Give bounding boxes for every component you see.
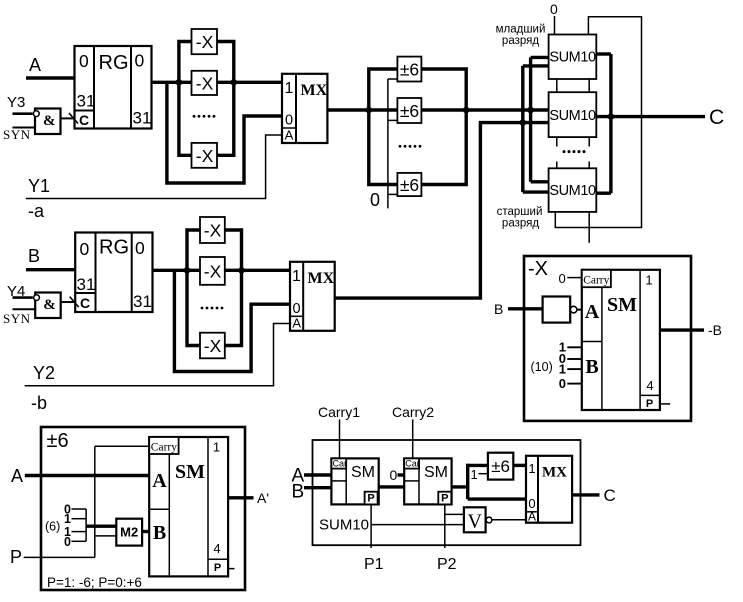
node P input of ±6 detail xyxy=(10,547,22,567)
junction on ±6 left bus xyxy=(366,107,373,114)
ellipsis dots -X column A xyxy=(193,115,216,118)
wire carry stubs between SUM10 digit1 and digit2 xyxy=(557,79,589,92)
register RG2 xyxy=(75,233,152,313)
adder SM (inside ±6 detail) xyxy=(149,437,228,576)
multiplexer MX2 xyxy=(290,262,335,331)
node B input of -X detail xyxy=(494,301,503,317)
svg-text:SM: SM xyxy=(424,464,448,481)
svg-text:0: 0 xyxy=(80,239,90,259)
node SYN label xyxy=(3,127,31,142)
node A' label xyxy=(257,490,269,506)
svg-text:A: A xyxy=(11,466,23,486)
block -X A3 xyxy=(192,143,218,168)
svg-text:1: 1 xyxy=(645,273,652,288)
svg-text:SUM10: SUM10 xyxy=(549,183,596,199)
svg-text:0: 0 xyxy=(559,271,566,286)
block -X B3 xyxy=(200,333,225,359)
label SUM10 title xyxy=(319,517,369,534)
node SYN label channel B xyxy=(3,311,31,326)
wire MX1 output to ±6 column xyxy=(327,108,466,111)
-X detail outer box xyxy=(524,256,691,421)
label старший разряд xyxy=(497,206,543,230)
svg-text:-X: -X xyxy=(528,258,548,280)
wire A' output xyxy=(228,496,253,499)
svg-text:±6: ±6 xyxy=(47,430,69,452)
wire main line ±6 column to SUM10 A inputs xyxy=(466,108,548,111)
wire P control line of ±6 column with constant 0 xyxy=(388,79,398,208)
svg-text:±6: ±6 xyxy=(400,175,419,195)
svg-text:0: 0 xyxy=(370,190,380,210)
wire bypass RG1 to MX1 input 0 xyxy=(167,82,282,183)
wire Y1 control to MX1 select A xyxy=(26,135,282,199)
svg-text:±6: ±6 xyxy=(400,101,419,121)
node Carry1 label xyxy=(318,404,360,420)
svg-text:SUM10: SUM10 xyxy=(549,50,596,66)
multiplexer MX (SUM10 detail) xyxy=(526,456,572,524)
block -X A1 xyxy=(192,29,218,54)
node -a label xyxy=(28,201,45,221)
SUM10 detail outer box xyxy=(313,440,581,545)
node -B label xyxy=(708,322,722,338)
svg-text:-a: -a xyxy=(28,201,45,221)
svg-text:A: A xyxy=(585,301,600,323)
svg-text:31: 31 xyxy=(77,275,96,294)
svg-text:Y2: Y2 xyxy=(33,363,55,383)
svg-text:Car: Car xyxy=(333,458,348,468)
svg-text:C: C xyxy=(709,106,724,129)
svg-text:RG: RG xyxy=(99,52,129,74)
wire P2 branch to V input xyxy=(446,513,464,515)
wire M2 output to SM B input xyxy=(142,530,149,533)
svg-text:P: P xyxy=(367,493,374,505)
wire RG1 output to MX1 input 1 (main line) xyxy=(152,81,283,84)
wire P output stub of -X detail xyxy=(660,403,670,405)
svg-text:MX: MX xyxy=(301,82,328,99)
svg-text:SYN: SYN xyxy=(3,127,31,142)
svg-text:-X: -X xyxy=(204,220,222,240)
node B input label xyxy=(28,246,40,266)
wire 0110 bracket to M2 input xyxy=(86,525,116,528)
wire B input to first SM xyxy=(304,486,331,489)
block SUM10 digit 1 xyxy=(549,35,597,80)
node Carry2 label xyxy=(392,404,434,420)
svg-text:0: 0 xyxy=(550,1,558,17)
wire A input to SM xyxy=(25,474,149,477)
block SUM10 digit 3 xyxy=(549,168,597,212)
block ±6 A3 xyxy=(397,173,421,196)
wire Y3 input xyxy=(13,112,33,115)
label младший разряд xyxy=(496,24,546,48)
node -b label xyxy=(31,393,47,413)
node Y1 label xyxy=(28,176,50,196)
junction on ±6 right bus xyxy=(463,107,470,114)
ellipsis dots ±6 column xyxy=(399,145,422,148)
node 0 carry-in constant xyxy=(559,271,582,286)
wire AND2 output to RG2 clock C with dynamic-input slash xyxy=(61,297,79,308)
wire SUM10 A bus vertical xyxy=(531,57,549,181)
svg-text:младший: младший xyxy=(496,24,546,36)
junction output bus with C line xyxy=(608,113,615,120)
svg-text:0: 0 xyxy=(135,238,145,258)
wire -B output xyxy=(660,328,704,331)
node constant 0110 inputs to M2 xyxy=(64,503,86,550)
adder SM second (correction) xyxy=(404,458,451,504)
wire right bus of -X column B xyxy=(225,230,242,346)
wire P1 branch to V input xyxy=(371,524,464,526)
svg-text:-X: -X xyxy=(204,261,222,281)
register RG1 xyxy=(75,46,152,129)
wire RG2 output to MX2 input 1 (main line B) xyxy=(153,269,291,272)
svg-text:P: P xyxy=(441,493,448,505)
±6 detail outer box xyxy=(41,427,245,590)
svg-text:±6: ±6 xyxy=(491,457,510,476)
gate U1 AND (&) for channel A xyxy=(33,109,60,135)
svg-text:1: 1 xyxy=(559,362,566,377)
svg-text:0: 0 xyxy=(64,535,71,549)
svg-text:±6: ±6 xyxy=(400,60,419,80)
svg-text:Carry: Carry xyxy=(151,442,177,454)
svg-text:-B: -B xyxy=(708,322,722,338)
svg-text:-X: -X xyxy=(196,146,214,166)
svg-text:разряд: разряд xyxy=(502,35,539,47)
svg-text:M2: M2 xyxy=(120,525,138,540)
wire Carry1 into first SM xyxy=(339,420,341,459)
node 0 constant for ±6 P line xyxy=(370,190,380,210)
svg-text:-X: -X xyxy=(196,73,214,93)
block -X A2 xyxy=(192,71,218,95)
svg-text:1: 1 xyxy=(213,440,220,455)
wire carry stubs between SUM10 digit2 and digit3 xyxy=(557,137,589,168)
node A input of ±6 detail xyxy=(11,466,23,486)
junction on right -X bus B xyxy=(238,267,245,274)
svg-text:1: 1 xyxy=(64,512,71,526)
svg-text:Carry: Carry xyxy=(583,275,609,287)
ellipsis dots SUM10 column xyxy=(563,150,586,153)
node P1 label xyxy=(364,556,384,573)
label ±6 title xyxy=(47,430,69,452)
node constant 1010 inputs to SM B xyxy=(559,340,582,392)
svg-text:A': A' xyxy=(257,490,269,506)
svg-text:V: V xyxy=(468,511,483,533)
svg-text:1: 1 xyxy=(528,461,535,476)
wire right bus of ±6 column xyxy=(421,69,466,185)
junction main line with SUM10 A bus xyxy=(527,107,534,114)
wire P2 down from second SM P xyxy=(444,504,446,548)
adder SM first (units) xyxy=(331,458,378,504)
ellipsis dots -X column B xyxy=(201,307,224,310)
wire channel B riser to SUM10 B inputs xyxy=(335,123,549,299)
svg-text:0: 0 xyxy=(135,51,145,71)
svg-text:Y3: Y3 xyxy=(7,94,25,111)
wire right bus of -X column A xyxy=(217,42,234,156)
label (10) xyxy=(531,360,553,374)
block -X B1 xyxy=(200,217,225,243)
wire Carry2 into second SM xyxy=(412,420,414,459)
svg-text:SM: SM xyxy=(175,461,205,483)
svg-text:A: A xyxy=(285,128,294,143)
wire C output of SUM10 detail xyxy=(572,493,599,496)
gate V (OR) with inverted output xyxy=(464,507,526,532)
wire P1 down from first SM P xyxy=(370,504,372,548)
node 0 constant to second SM A input xyxy=(390,467,405,483)
gate U2 AND (&) for channel B xyxy=(34,293,61,319)
svg-text:31: 31 xyxy=(133,109,152,128)
svg-text:B: B xyxy=(292,482,305,503)
svg-text:A: A xyxy=(152,470,167,492)
label -X title xyxy=(528,258,548,280)
svg-text:(6): (6) xyxy=(45,520,60,534)
svg-text:P: P xyxy=(214,562,221,574)
node P2 label xyxy=(437,556,457,573)
wire A input to first SM xyxy=(304,473,331,476)
svg-text:31: 31 xyxy=(77,92,96,111)
svg-text:SM: SM xyxy=(607,294,637,316)
multiplexer MX1 xyxy=(282,74,328,143)
junction B line with SUM10 B bus xyxy=(520,119,527,126)
svg-text:SYN: SYN xyxy=(3,311,31,326)
junction on left -X bus xyxy=(176,79,183,86)
block -X B2 xyxy=(200,257,225,285)
svg-text:-X: -X xyxy=(204,336,222,356)
wire SYN input channel B xyxy=(13,308,36,310)
wire P output stub of ±6 detail xyxy=(228,568,234,570)
node C label xyxy=(709,106,724,129)
svg-text:MX: MX xyxy=(542,465,567,481)
svg-text:1: 1 xyxy=(285,80,294,97)
svg-text:B: B xyxy=(494,301,503,317)
adder SM (inside -X detail) xyxy=(582,270,660,410)
inverter (NOT) in -X detail xyxy=(543,297,582,323)
svg-text:SUM10: SUM10 xyxy=(549,108,596,124)
svg-text:0: 0 xyxy=(285,113,293,129)
svg-text:P2: P2 xyxy=(437,556,457,573)
wire left bus of -X column A xyxy=(179,42,192,156)
block M2 (mod-2 / complement unit) xyxy=(116,519,142,546)
svg-text:B: B xyxy=(153,522,166,544)
svg-text:&: & xyxy=(43,113,56,129)
svg-text:C: C xyxy=(604,486,616,505)
node Y4 label xyxy=(7,283,25,300)
svg-text:&: & xyxy=(43,297,56,313)
node Y3 label xyxy=(7,94,25,111)
svg-text:Carry2: Carry2 xyxy=(392,404,434,420)
svg-text:4: 4 xyxy=(213,541,220,556)
wire bypass RG2 to MX2 input 0 xyxy=(174,270,290,371)
wire Y2 control to MX2 select A xyxy=(25,324,290,386)
svg-text:MX: MX xyxy=(308,270,335,287)
wire A input xyxy=(26,76,76,79)
junction on right -X bus xyxy=(231,79,238,86)
block ±6 A1 xyxy=(397,57,421,82)
node 0 carry-in on top of SUM10 digit 1 xyxy=(550,1,558,35)
wire P input branching to Carry and M2 xyxy=(24,446,150,557)
wire carry wrap-around from digit3 bottom to digit1 top xyxy=(555,17,641,228)
svg-text:Car: Car xyxy=(405,458,420,468)
wire Y4 input xyxy=(13,296,33,299)
svg-text:P: P xyxy=(646,398,653,410)
wire left bus of -X column B xyxy=(187,230,200,346)
wire B input xyxy=(26,268,76,271)
svg-text:(10): (10) xyxy=(531,360,553,374)
svg-text:P1: P1 xyxy=(364,556,384,573)
svg-text:C: C xyxy=(79,112,89,128)
node C label of SUM10 detail xyxy=(604,486,616,505)
svg-text:1: 1 xyxy=(471,467,478,482)
svg-text:-X: -X xyxy=(196,32,214,52)
svg-text:0: 0 xyxy=(79,51,89,71)
svg-text:B: B xyxy=(28,246,40,266)
wire left bus of ±6 column xyxy=(369,69,398,185)
node A input label of SUM10 detail xyxy=(292,466,305,487)
svg-text:A: A xyxy=(29,55,41,75)
node B input label of SUM10 detail xyxy=(292,482,305,503)
svg-text:P=1: -6; P=0:+6: P=1: -6; P=0:+6 xyxy=(47,575,142,590)
svg-text:P: P xyxy=(10,547,22,567)
node A input label xyxy=(29,55,41,75)
svg-text:0: 0 xyxy=(390,467,398,483)
svg-text:4: 4 xyxy=(646,378,653,393)
svg-text:0: 0 xyxy=(292,301,300,317)
block ±6 corrector xyxy=(488,453,513,480)
label (6) xyxy=(45,520,60,534)
svg-text:разряд: разряд xyxy=(502,218,539,230)
wire second SM output split to ±6 and MX input 0 xyxy=(452,464,526,499)
svg-text:C: C xyxy=(80,295,90,311)
svg-text:SUM10: SUM10 xyxy=(319,517,369,534)
block SUM10 digit 2 xyxy=(549,92,597,137)
block ±6 A2 xyxy=(397,98,421,123)
wire SUM10 B bus vertical xyxy=(523,66,549,192)
svg-text:B: B xyxy=(585,356,598,378)
wire ±6 output to MX input 1 xyxy=(513,464,526,467)
wire SYN input xyxy=(13,127,36,129)
svg-text:-b: -b xyxy=(31,393,47,413)
svg-text:SM: SM xyxy=(351,464,375,481)
wire first SM output to second SM B input xyxy=(379,485,405,488)
svg-text:старший: старший xyxy=(497,206,543,218)
node Y2 label xyxy=(33,363,55,383)
node constant 1 to ±6 P input xyxy=(471,467,488,482)
svg-text:RG: RG xyxy=(99,237,129,259)
label P=1: -6; P=0:+6 xyxy=(47,575,142,590)
wire C output xyxy=(596,115,705,118)
svg-text:Y1: Y1 xyxy=(28,176,50,196)
svg-text:31: 31 xyxy=(133,292,152,311)
wire B input to inverter xyxy=(508,307,543,310)
wire carry-out stub below SUM10 digit3 xyxy=(588,212,590,243)
svg-text:Carry1: Carry1 xyxy=(318,404,360,420)
svg-text:1: 1 xyxy=(292,268,301,285)
wire AND1 output to RG1 clock C with dynamic-input slash xyxy=(61,113,79,124)
svg-text:A: A xyxy=(292,316,301,331)
svg-text:A: A xyxy=(528,510,536,524)
wire SUM10 output bus right xyxy=(596,54,611,193)
junction on left -X bus B xyxy=(184,267,191,274)
svg-text:0: 0 xyxy=(559,376,566,391)
